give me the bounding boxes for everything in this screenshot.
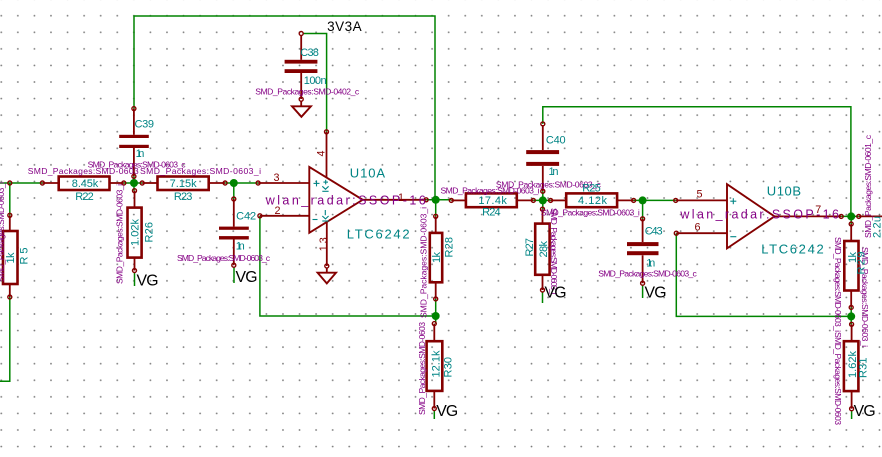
ground under C38 — [292, 101, 311, 117]
svg-text:1n: 1n — [236, 240, 245, 252]
pin numbers U10B — [695, 189, 822, 234]
svg-text:7: 7 — [815, 204, 821, 216]
svg-text:SMD_Packages:SMD-0603_c: SMD_Packages:SMD-0603_c — [598, 268, 697, 278]
svg-text:VG: VG — [137, 273, 159, 290]
junction U10B feedback divider — [847, 312, 855, 320]
svg-text:1n: 1n — [549, 166, 559, 178]
svg-text:SMD_Packages:SMD-0603_i: SMD_Packages:SMD-0603_i — [441, 185, 540, 195]
footprint text U10B wlan_radar:SSOP-16 — [679, 208, 839, 222]
footprint text R30 vertical — [417, 322, 427, 415]
svg-text:SMD_Packages:SMD-0603_i: SMD_Packages:SMD-0603_i — [140, 166, 261, 176]
footprint text R25 — [541, 208, 640, 218]
svg-text:100n: 100n — [304, 75, 327, 87]
wire node A to R26 — [133, 183, 135, 191]
svg-text:R23: R23 — [174, 191, 193, 203]
wire U10B output node — [841, 215, 859, 217]
resistor R24 17.4k — [449, 193, 535, 218]
resistor R30 12.1k vertical — [427, 322, 455, 411]
svg-text:1k: 1k — [5, 252, 17, 264]
power label 3V3A — [327, 19, 362, 34]
svg-text:7.15k: 7.15k — [170, 178, 198, 190]
wire top feedback rail horizontal — [134, 16, 435, 200]
svg-text:C42: C42 — [236, 211, 256, 223]
svg-text:VG: VG — [854, 403, 876, 420]
svg-text:1n: 1n — [136, 148, 145, 160]
power label VG under R31 — [854, 403, 876, 420]
footprint text R29 vertical left column — [833, 237, 843, 332]
footprint text C38 — [255, 86, 360, 96]
resistor R22 8.45k — [40, 177, 125, 204]
wire VG stub R30 — [433, 411, 435, 420]
resistor R29 1k vertical — [844, 222, 859, 309]
wire VG stub C42 — [233, 267, 235, 283]
resistor R27 28k vertical — [524, 207, 550, 292]
svg-text:5: 5 — [697, 189, 703, 201]
junction node C — [539, 196, 547, 204]
capacitor C44 pin stub at right edge — [857, 214, 882, 238]
junction U10A output — [432, 196, 440, 204]
power label VG under R30 — [436, 403, 458, 420]
pin numbers U10A — [274, 150, 405, 251]
footprint text R27 vertical — [549, 208, 559, 295]
footprint text C40 — [496, 179, 602, 189]
svg-text:SMD_Packages:SMD-0603_i: SMD_Packages:SMD-0603_i — [833, 237, 843, 332]
svg-text:C38: C38 — [300, 47, 319, 59]
svg-text:R24: R24 — [482, 207, 501, 219]
svg-text:R28: R28 — [444, 237, 456, 258]
svg-text:R29: R29 — [856, 252, 868, 275]
resistor R25 4.12k — [549, 193, 636, 207]
junction U10B output — [847, 212, 855, 220]
wire node C segment R24 to R25 — [533, 199, 550, 201]
svg-text:R26: R26 — [144, 222, 156, 243]
svg-text:LTC6242: LTC6242 — [761, 242, 824, 257]
power label VG under R27 — [545, 284, 567, 301]
reference label R25 — [582, 183, 601, 195]
capacitor C39 1n — [119, 107, 154, 183]
resistor R5 1k vertical — [3, 181, 31, 299]
footprint text C43 — [598, 268, 697, 278]
resistor R26 1.02k vertical — [128, 189, 156, 273]
junction node B — [230, 179, 238, 187]
svg-text:2: 2 — [275, 205, 281, 217]
capacitor C38 100n — [285, 32, 327, 102]
svg-text:3V3A: 3V3A — [327, 19, 362, 34]
svg-text:U10B: U10B — [767, 183, 801, 198]
wire output node down to R28 — [435, 200, 437, 217]
capacitor C43 1n — [627, 217, 663, 285]
svg-text:C39: C39 — [135, 119, 155, 131]
capacitor C42 1n — [219, 197, 256, 267]
svg-text:VG: VG — [236, 269, 258, 286]
wire R5 bottom to left edge — [0, 297, 10, 381]
svg-text:13: 13 — [318, 237, 330, 251]
svg-text:SMD_Packages:SMD-0603_i: SMD_Packages:SMD-0603_i — [0, 182, 6, 282]
capacitor C40 1n — [526, 122, 565, 200]
wire node B to C42 — [233, 183, 235, 199]
footprint text C44 vertical at right edge — [863, 134, 873, 238]
svg-text:8.45k: 8.45k — [72, 178, 99, 190]
op-amp U10B LTC6242 — [674, 183, 844, 256]
wire VG stub R27 — [542, 292, 544, 303]
svg-text:1.02k: 1.02k — [130, 219, 142, 247]
svg-text:C40: C40 — [546, 134, 566, 146]
wire node D down to C43 — [642, 200, 644, 218]
wire VG stub R31 — [851, 411, 853, 419]
svg-text:SMD_Packages:SMD-0603_i: SMD_Packages:SMD-0603_i — [419, 207, 429, 318]
svg-text:C43: C43 — [645, 226, 663, 238]
junction U10A feedback divider — [432, 312, 440, 320]
svg-text:6: 6 — [695, 222, 701, 234]
footprint text R5 vertical at left edge — [0, 182, 6, 282]
op-amp U10A LTC6242 — [256, 130, 428, 268]
footprint text R29 vertical — [860, 247, 870, 347]
svg-text:4.12k: 4.12k — [578, 195, 608, 207]
svg-text:SMD_Packages:SMD-0603: SMD_Packages:SMD-0603 — [833, 332, 843, 425]
power label VG under C43 — [645, 285, 667, 302]
footprint text R23 — [140, 166, 261, 176]
resistor R23 7.15k — [140, 177, 227, 204]
wire node C down to R27 — [542, 200, 544, 209]
wire C40 top rail to U10B output — [543, 107, 851, 217]
svg-text:1: 1 — [398, 192, 404, 204]
wire VG stub R26 — [134, 273, 136, 287]
wire node D segment R25 to pin5 — [634, 199, 676, 201]
svg-text:R27: R27 — [524, 238, 536, 257]
wire R29 to feedback junction right — [850, 307, 852, 324]
junction node A — [130, 179, 138, 187]
wire R28 to feedback junction — [435, 299, 437, 324]
svg-text:SMD_Packages:SMD-0402_c: SMD_Packages:SMD-0402_c — [255, 86, 360, 96]
svg-text:LTC6242: LTC6242 — [347, 227, 410, 242]
wire main input net left segment — [0, 182, 42, 184]
svg-text:U10A: U10A — [350, 165, 386, 180]
svg-text:12.1k: 12.1k — [431, 350, 443, 378]
svg-text:SMD_Packages:SMD-0603_c: SMD_Packages:SMD-0603_c — [177, 253, 271, 263]
svg-text:SMD_Packages:SMD-0603_i: SMD_Packages:SMD-0603_i — [549, 208, 559, 295]
wire U10A output node — [426, 199, 451, 201]
footprint text R24 — [441, 185, 540, 195]
svg-text:SMD_Packages:SMD-0603_i: SMD_Packages:SMD-0603_i — [115, 184, 125, 284]
ground under U10A pin13 — [318, 268, 336, 284]
svg-text:VG: VG — [545, 284, 567, 301]
wire 3V3A to C38 and pin4 — [303, 34, 327, 132]
footprint text U10A wlan_radar:SSOP-16 — [265, 193, 426, 207]
wire R5 top — [9, 183, 11, 215]
wire U10B output down to R29 — [850, 216, 852, 224]
svg-text:3: 3 — [274, 172, 280, 184]
resistor R28 1k vertical — [430, 214, 456, 301]
wire VG stub C43 — [642, 285, 644, 298]
footprint text R22 — [28, 166, 139, 176]
power label VG under R26 — [137, 273, 159, 290]
svg-text:R31: R31 — [858, 358, 870, 379]
svg-text:R22: R22 — [75, 191, 94, 203]
svg-text:SMD_Packages:SMD-0603: SMD_Packages:SMD-0603 — [417, 322, 427, 415]
wire node A segment between R22 and R23 — [124, 182, 142, 184]
svg-text:R25: R25 — [582, 183, 601, 195]
svg-text:28k: 28k — [538, 241, 550, 258]
svg-text:1k: 1k — [431, 252, 443, 264]
svg-text:SMD_Packages:SMD-0603: SMD_Packages:SMD-0603 — [28, 166, 139, 176]
wire U10B feedback pin6 path — [676, 233, 851, 316]
footprint text R26 vertical — [115, 184, 125, 284]
footprint text C39 — [88, 159, 187, 169]
svg-text:VG: VG — [645, 285, 667, 302]
junction node D — [639, 196, 647, 204]
wire U10A feedback pin2 path — [260, 216, 436, 316]
footprint text R28 vertical — [419, 207, 429, 318]
svg-text:17.4k: 17.4k — [478, 195, 507, 207]
svg-text:4: 4 — [316, 150, 328, 156]
reference label R29 — [856, 252, 868, 275]
footprint text C42 — [177, 253, 271, 263]
svg-text:R30: R30 — [443, 357, 455, 378]
svg-text:2.2u: 2.2u — [872, 216, 882, 238]
svg-text:VG: VG — [436, 403, 458, 420]
resistor R31 1.62k vertical — [844, 322, 870, 410]
wire node B segment R23 to pin3 — [225, 182, 258, 184]
power label VG under C42 — [236, 269, 258, 286]
footprint text R31 vertical — [833, 332, 843, 425]
svg-text:SMD_Packages:SMD-0601_c: SMD_Packages:SMD-0601_c — [863, 134, 873, 238]
